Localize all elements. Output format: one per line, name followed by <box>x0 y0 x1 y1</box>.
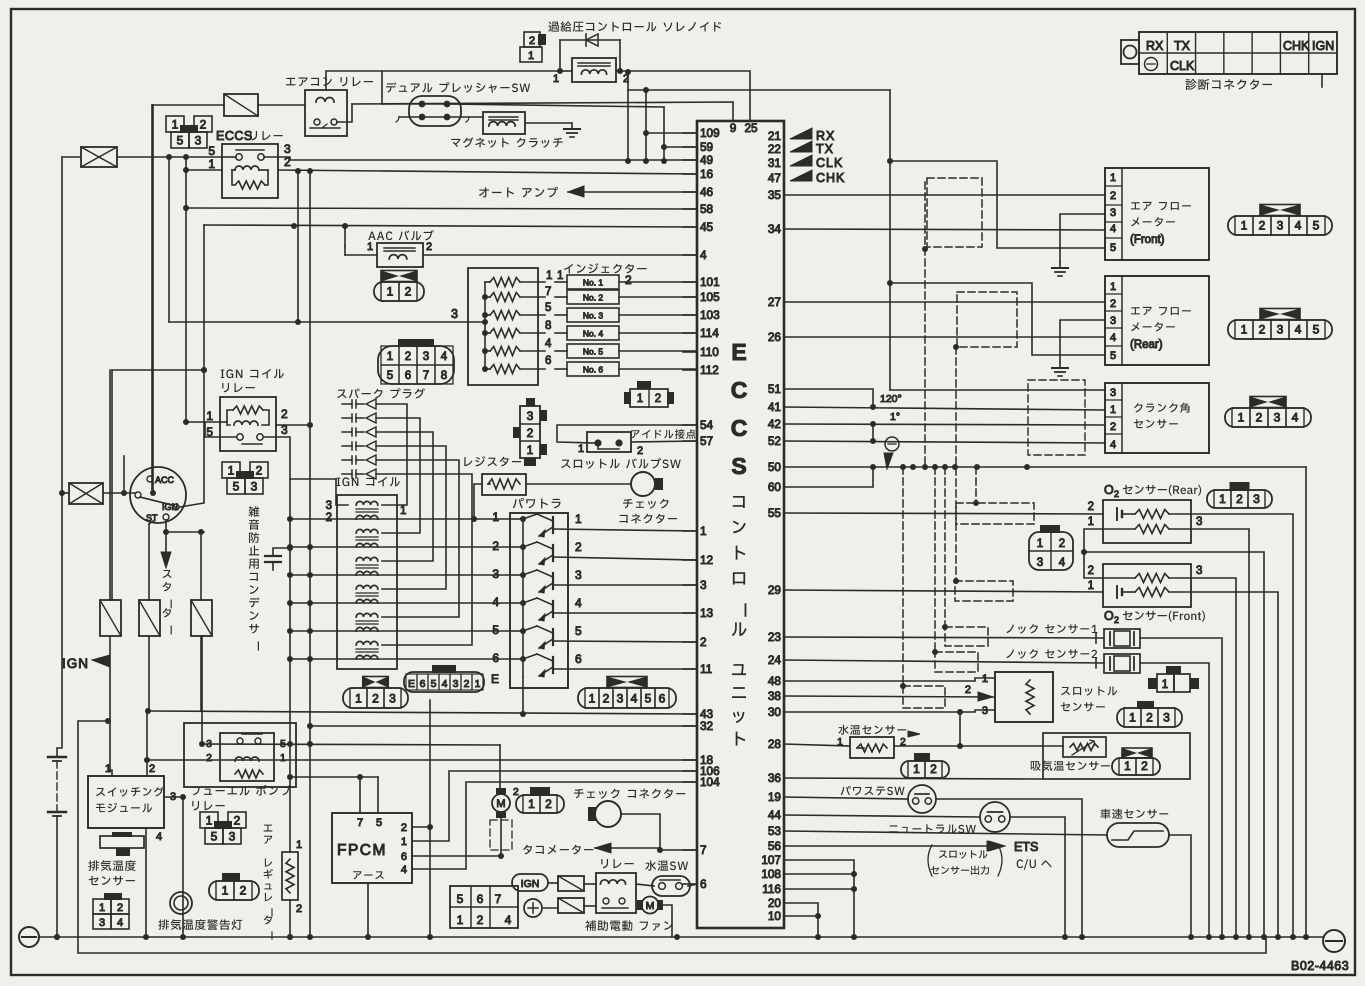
connector C1 1/2/5/3 above ECCS relay <box>166 116 184 132</box>
ECCS relay <box>222 144 278 198</box>
fuse F1 <box>81 147 117 167</box>
wire y90 feed line <box>627 72 629 90</box>
svg-text:13: 13 <box>700 606 714 620</box>
aux fan motor <box>642 897 659 914</box>
svg-text:5: 5 <box>492 623 499 637</box>
RX TX CLK CHK diagnostic flags <box>790 128 812 139</box>
check connector circle mid <box>631 472 655 496</box>
IGN oval source <box>512 874 548 891</box>
svg-text:CLK: CLK <box>1170 59 1195 73</box>
connector E654321 <box>404 672 484 692</box>
svg-text:2: 2 <box>240 884 247 898</box>
wire FL4 to relay contact <box>201 636 203 744</box>
svg-text:114: 114 <box>700 326 719 340</box>
svg-text:1: 1 <box>553 73 559 85</box>
wire pin106 row to FPCM pin1 <box>412 771 697 841</box>
wire fuse F2 <box>62 492 69 494</box>
wire pin60 <box>784 467 873 487</box>
svg-text:2: 2 <box>477 913 484 927</box>
svg-text:ECCS: ECCS <box>216 129 253 143</box>
svg-text:3: 3 <box>1163 711 1170 725</box>
starter arrow <box>165 532 167 556</box>
svg-text:1: 1 <box>206 813 213 827</box>
svg-text:5: 5 <box>575 624 582 638</box>
svg-text:5: 5 <box>208 144 215 158</box>
svg-text:2: 2 <box>1236 492 1243 506</box>
wire solenoid to dual-pressure SW <box>382 71 560 96</box>
svg-text:3: 3 <box>575 568 582 582</box>
svg-text:4: 4 <box>1110 223 1116 235</box>
svg-text:2: 2 <box>1114 489 1119 499</box>
wire IGN relay pin5 <box>205 422 236 437</box>
svg-text:5: 5 <box>431 678 437 690</box>
svg-text:1: 1 <box>1162 679 1168 691</box>
wire aircon contact right <box>337 104 352 122</box>
svg-text:3: 3 <box>389 691 396 705</box>
dashed shield box 55 <box>956 503 1034 524</box>
wire ECCS relay pin2 long row to pin16 <box>278 170 697 174</box>
svg-text:1: 1 <box>401 836 407 848</box>
svg-text:2: 2 <box>492 539 499 553</box>
svg-text:51: 51 <box>768 382 781 396</box>
svg-text:30: 30 <box>768 705 782 719</box>
svg-text:1: 1 <box>296 839 302 851</box>
svg-text:2: 2 <box>700 635 707 649</box>
neutral SW <box>980 802 1010 832</box>
wire pin50 long bus <box>784 466 1306 468</box>
dual pressure SW label <box>386 82 530 93</box>
svg-text:1: 1 <box>528 50 534 62</box>
wire IGN relay pin1 <box>186 421 220 423</box>
svg-text:No. 4: No. 4 <box>583 329 604 339</box>
svg-text:7: 7 <box>700 843 707 857</box>
svg-text:3: 3 <box>195 133 202 147</box>
svg-text:49: 49 <box>700 153 713 167</box>
wire auto amp arrow pin46 <box>568 191 697 193</box>
wire dual pressure to 59 riser <box>447 104 664 107</box>
svg-text:2: 2 <box>405 285 412 299</box>
wire O2 common to riser <box>1084 552 1264 937</box>
svg-text:23: 23 <box>768 630 782 644</box>
wire front meter pin3 ground <box>1060 214 1105 262</box>
wire battery bus vertical <box>57 157 62 757</box>
svg-text:105: 105 <box>700 290 720 304</box>
svg-text:(Rear): (Rear) <box>1130 339 1163 351</box>
battery <box>48 756 66 758</box>
wire fusible FL1 <box>152 104 224 106</box>
svg-text:1°: 1° <box>890 411 900 423</box>
svg-text:57: 57 <box>700 434 713 448</box>
svg-text:5: 5 <box>545 302 551 314</box>
svg-text:110: 110 <box>700 345 719 359</box>
O2 sensor front box <box>1103 564 1191 607</box>
svg-text:42: 42 <box>768 417 781 431</box>
svg-text:2: 2 <box>149 763 155 775</box>
svg-text:24: 24 <box>768 653 782 667</box>
wire crank pin3 <box>890 389 1105 391</box>
wire ECCS relay pin3 to pin49 <box>264 157 697 160</box>
wire FL1 junction to ECCS relay branch <box>168 157 170 322</box>
svg-text:E: E <box>408 678 415 690</box>
wire riser x890 <box>889 90 891 390</box>
svg-text:1: 1 <box>105 763 111 775</box>
wire fuse F1 feed <box>62 156 81 158</box>
svg-text:3: 3 <box>423 351 429 363</box>
wire 20 10 drop <box>784 903 818 937</box>
svg-text:3: 3 <box>982 705 988 717</box>
ground magnet clutch <box>571 123 573 129</box>
throttle sensor connector 123 <box>1137 701 1154 709</box>
spark plugs <box>342 403 352 405</box>
svg-text:2: 2 <box>1256 411 1263 425</box>
fusible link FL4 vertical <box>191 600 212 636</box>
svg-text:27: 27 <box>768 295 781 309</box>
svg-text:3: 3 <box>251 479 258 493</box>
IGN coil bank <box>356 501 378 505</box>
svg-text:1: 1 <box>1110 281 1116 293</box>
fuel pump motor <box>492 794 510 812</box>
knock sensor 1 label <box>1006 624 1097 634</box>
svg-text:6: 6 <box>492 651 499 665</box>
svg-text:M: M <box>496 798 505 810</box>
IGN coil relay <box>220 397 276 451</box>
svg-text:IGN: IGN <box>521 878 540 890</box>
wire pin26 to rear meter <box>784 336 1105 338</box>
svg-text:1: 1 <box>280 752 286 764</box>
wire pin57 from SW pin2 <box>632 441 697 442</box>
wire solenoid pins <box>559 40 561 71</box>
timing flag <box>884 453 893 469</box>
svg-text:M: M <box>646 900 655 912</box>
wire motor riser <box>499 745 501 789</box>
svg-text:7: 7 <box>545 286 551 298</box>
air regulator resistor <box>282 852 298 900</box>
svg-text:1: 1 <box>1241 219 1248 233</box>
svg-text:2: 2 <box>401 822 407 834</box>
svg-text:4: 4 <box>1295 323 1302 337</box>
O2 connector square 1234 <box>1040 525 1060 533</box>
fuel pump relay <box>220 733 274 781</box>
knock sensor 1 <box>1104 629 1140 648</box>
vehicle speed sensor label <box>1101 809 1169 819</box>
svg-text:112: 112 <box>700 363 719 377</box>
svg-text:5: 5 <box>1313 323 1320 337</box>
wire FPCM earth drop <box>367 883 369 937</box>
bottom bus wire 2 <box>78 937 1266 953</box>
wire O2 front pin2 from common <box>1084 552 1103 578</box>
svg-text:4: 4 <box>442 678 448 690</box>
svg-text:No. 6: No. 6 <box>583 365 604 375</box>
wire IGN relay pin3 down <box>264 437 290 479</box>
svg-text:20: 20 <box>768 896 782 910</box>
svg-text:2: 2 <box>1146 711 1153 725</box>
connector 1|2 mid right <box>637 381 651 389</box>
AAC connector bowtie 1|2 <box>381 271 417 282</box>
svg-text:3: 3 <box>1274 411 1281 425</box>
wire pin38 throttle2 <box>784 696 995 697</box>
svg-text:FPCM: FPCM <box>337 842 387 859</box>
svg-text:1: 1 <box>557 270 563 282</box>
svg-text:1: 1 <box>1037 538 1043 550</box>
svg-text:RX: RX <box>1146 39 1164 53</box>
svg-text:5: 5 <box>1110 242 1116 254</box>
O2 rear connector 123 <box>1207 490 1272 508</box>
wire relay contact row to motor riser <box>202 744 500 745</box>
svg-text:IGN: IGN <box>62 656 89 671</box>
svg-text:3: 3 <box>1110 207 1116 219</box>
wire rear meter pin5 feed <box>890 283 1105 355</box>
svg-text:5: 5 <box>645 691 652 705</box>
air flow rear connector <box>1228 320 1332 339</box>
spark plug label <box>337 388 425 398</box>
svg-text:2: 2 <box>281 407 288 421</box>
svg-text:7: 7 <box>423 370 429 382</box>
wire O2 front pin3 down <box>1191 578 1236 937</box>
tachometer label <box>523 845 593 855</box>
svg-text:1: 1 <box>528 797 535 811</box>
IGN coil label <box>337 477 400 486</box>
wire ignition ST branch <box>165 520 167 532</box>
svg-text:1: 1 <box>457 913 464 927</box>
wire pin27 to rear meter <box>784 301 1105 303</box>
svg-text:1: 1 <box>222 884 229 898</box>
svg-text:2: 2 <box>206 752 212 764</box>
wire front meter pin5 feed <box>890 161 1105 248</box>
water temp connector oval <box>914 753 930 761</box>
svg-text:1: 1 <box>1219 492 1226 506</box>
svg-text:1: 1 <box>1129 711 1136 725</box>
svg-text:2: 2 <box>234 813 241 827</box>
throttle sensor box <box>995 672 1053 722</box>
svg-text:1: 1 <box>387 351 393 363</box>
svg-text:2: 2 <box>117 902 123 914</box>
ignition switch <box>130 467 186 523</box>
svg-text:3: 3 <box>451 307 458 321</box>
water temp SW label <box>645 860 688 871</box>
air flow meter rear box <box>1105 276 1209 365</box>
svg-text:25: 25 <box>744 121 758 135</box>
svg-text:53: 53 <box>768 824 782 838</box>
wire check connector to tacho <box>621 814 660 848</box>
exhaust temp sensor symbol <box>100 836 144 848</box>
svg-text:8: 8 <box>441 370 447 382</box>
svg-text:2: 2 <box>1059 538 1065 550</box>
dashed box motor return <box>490 820 512 850</box>
fusible link fan 2 <box>558 898 584 913</box>
wire y370 left segment <box>112 369 204 371</box>
svg-text:12: 12 <box>700 553 713 567</box>
svg-text:1: 1 <box>228 463 235 477</box>
svg-text:7: 7 <box>495 892 502 906</box>
svg-text:6: 6 <box>420 678 426 690</box>
svg-text:3: 3 <box>99 917 105 929</box>
check connector label mid <box>623 499 668 509</box>
svg-text:2: 2 <box>326 512 332 524</box>
svg-text:26: 26 <box>768 330 782 344</box>
svg-text:2: 2 <box>655 393 661 405</box>
fusible link fan 1 <box>558 876 584 891</box>
svg-text:3: 3 <box>229 829 236 843</box>
svg-text:34: 34 <box>768 222 782 236</box>
svg-text:2: 2 <box>527 426 534 440</box>
svg-text:1: 1 <box>475 678 481 690</box>
svg-text:5: 5 <box>387 370 393 382</box>
svg-text:58: 58 <box>700 202 714 216</box>
wire pin36 to intake enclosure <box>784 778 1043 779</box>
svg-text:60: 60 <box>768 480 782 494</box>
svg-text:48: 48 <box>768 674 782 688</box>
svg-text:52: 52 <box>768 434 781 448</box>
wire pin23 knock1 <box>784 637 1104 638</box>
diagnostic connector label <box>1186 79 1273 90</box>
air regulator label vertical <box>264 825 273 940</box>
intake air temp enclosure <box>1043 733 1190 779</box>
svg-text:3: 3 <box>1277 323 1284 337</box>
throttle sensor label <box>1061 686 1117 695</box>
wire 25 to solenoid <box>620 71 750 121</box>
svg-text:5: 5 <box>211 829 218 843</box>
svg-text:O: O <box>1104 483 1114 497</box>
dashed shield box 48-38 <box>903 686 945 708</box>
svg-text:4: 4 <box>1292 411 1299 425</box>
fan connector grid 567/124 <box>450 886 518 928</box>
svg-text:ACC: ACC <box>155 475 175 485</box>
dashed box crank wires <box>1028 380 1085 455</box>
plus circle source <box>524 899 542 917</box>
wire riser 628 to 49 row <box>627 90 629 161</box>
svg-text:5: 5 <box>1313 219 1320 233</box>
noise condenser label vertical <box>249 506 260 650</box>
svg-text:28: 28 <box>768 737 782 751</box>
tachometer arrow <box>595 847 660 849</box>
aux fan label <box>585 920 673 931</box>
svg-text:107: 107 <box>761 853 781 867</box>
svg-text:3: 3 <box>1277 219 1284 233</box>
dashed shield box B <box>957 292 1017 347</box>
svg-text:1: 1 <box>492 510 499 524</box>
wire pin18 row <box>147 759 697 761</box>
AAC valve <box>377 243 423 267</box>
check connector circle bottom <box>595 801 621 827</box>
O2 sensor rear box <box>1103 500 1191 543</box>
svg-text:45: 45 <box>700 220 714 234</box>
svg-text:4: 4 <box>156 831 162 843</box>
battery negative terminal bottom-left <box>19 927 39 947</box>
svg-text:1: 1 <box>1110 172 1116 184</box>
svg-text:11: 11 <box>700 662 712 676</box>
svg-text:4: 4 <box>441 351 448 363</box>
O2 rear resistors <box>1135 510 1169 519</box>
wire pin30 throttle3 <box>784 710 995 712</box>
air-con relay label <box>286 77 373 86</box>
wire pin45 row <box>204 225 697 227</box>
svg-text:4: 4 <box>545 338 552 350</box>
exhaust warning lamp label <box>158 919 242 930</box>
air flow meter front label <box>1131 202 1191 210</box>
svg-text:6: 6 <box>700 877 707 891</box>
air flow meter front box <box>1105 168 1209 260</box>
svg-text:3: 3 <box>326 500 332 512</box>
fuel pump motor connector <box>516 795 564 813</box>
svg-text:101: 101 <box>700 275 720 289</box>
svg-text:2: 2 <box>256 463 263 477</box>
water temp SW <box>652 876 690 896</box>
svg-text:4: 4 <box>700 248 707 262</box>
svg-text:1: 1 <box>99 902 105 914</box>
svg-text:1: 1 <box>589 691 596 705</box>
wire fuel pump relay drop <box>182 797 184 937</box>
svg-text:1: 1 <box>1241 323 1248 337</box>
wire pin28 row <box>784 744 850 746</box>
register label <box>464 456 521 466</box>
boost control solenoid label <box>548 21 721 32</box>
wire 9 riser to aircon contact row <box>352 102 733 121</box>
svg-text:4: 4 <box>492 595 499 609</box>
injector label <box>564 263 646 273</box>
intake air temp resistor <box>1063 737 1106 757</box>
exhaust temp connector 1/2/3/4 <box>104 893 122 900</box>
svg-text:1: 1 <box>527 443 534 457</box>
knock sensor 2 <box>1104 654 1140 673</box>
O2 rear battery <box>1116 508 1118 520</box>
svg-text:2: 2 <box>529 35 535 47</box>
svg-text:19: 19 <box>768 790 781 804</box>
wire FPCM pin2 <box>412 826 430 828</box>
svg-text:(Front): (Front) <box>1130 234 1165 246</box>
switching module <box>88 776 164 828</box>
svg-text:10: 10 <box>768 909 782 923</box>
wire 109 feed <box>645 90 647 161</box>
svg-text:3: 3 <box>1037 557 1043 569</box>
svg-text:ETS: ETS <box>1014 840 1038 854</box>
svg-text:3: 3 <box>617 691 624 705</box>
svg-text:1: 1 <box>982 673 988 685</box>
svg-text:1: 1 <box>575 512 582 526</box>
wire pin41 crank1 <box>784 407 1105 410</box>
svg-text:No. 1: No. 1 <box>583 278 604 288</box>
boost control solenoid coil <box>572 58 616 82</box>
svg-text:IGN: IGN <box>1312 39 1334 53</box>
connector 1-6 right <box>578 688 676 708</box>
svg-text:1: 1 <box>1088 516 1094 528</box>
diagnostic connector <box>1121 40 1139 64</box>
wire x430 FPCM pin2 riser <box>429 700 431 937</box>
svg-text:1: 1 <box>367 241 373 253</box>
throttle sensor single connector <box>1166 666 1181 674</box>
fusible link FL2 vertical <box>100 600 121 636</box>
wire register to check connector <box>526 483 631 485</box>
IGN coil bank outer box <box>337 495 397 669</box>
timing mark minus <box>885 437 899 451</box>
wire switching module pins <box>146 710 148 776</box>
svg-text:2: 2 <box>200 117 207 131</box>
svg-text:22: 22 <box>768 142 781 156</box>
wire powertrans E drop <box>522 677 524 714</box>
wire 107 108 116 drop <box>784 860 854 937</box>
svg-text:31: 31 <box>768 156 781 170</box>
AAC valve label <box>368 230 434 240</box>
svg-text:1: 1 <box>208 157 215 171</box>
water temp sensor <box>850 737 894 758</box>
wire pin43 row <box>148 711 697 714</box>
throttle output note <box>939 850 987 859</box>
svg-text:21: 21 <box>768 129 781 143</box>
svg-text:55: 55 <box>768 506 782 520</box>
svg-text:6: 6 <box>405 370 411 382</box>
svg-text:E: E <box>731 339 746 365</box>
O2 front resistors <box>1135 574 1169 583</box>
wire switching module pin4 drop <box>145 828 147 937</box>
